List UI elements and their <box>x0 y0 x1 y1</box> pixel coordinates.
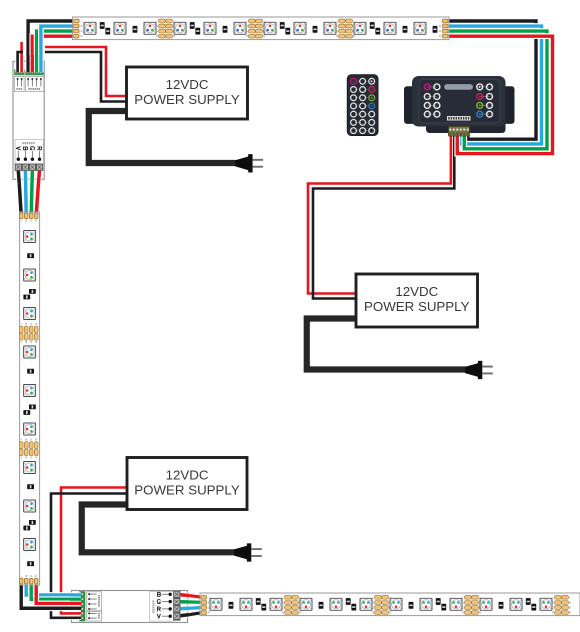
wire controller output B blue (controller to strip 1 right end) <box>447 26 542 144</box>
svg-text:+: + <box>372 595 374 599</box>
RGB LED, strip 3 (bottom), #7 <box>390 598 402 610</box>
wire top strip left G green (strip 1 to amplifier A1 input) <box>37 31 75 73</box>
amplifier A1 input pin diagram RGB box <box>25 77 43 92</box>
AC cable of power supply 3 <box>82 505 235 553</box>
wire end blue B into A2 RGB terminal <box>70 592 81 597</box>
amplifier A2 output pin V <box>157 614 172 618</box>
RGB LED, strip 3 (bottom), #3 <box>270 598 282 610</box>
wire strip 2 bottom + black (to amplifier A2 input) <box>21 582 82 608</box>
solder pads, strip 1 (top) <box>156 19 176 38</box>
amplifier A2 input terminal block 12V (green, 2-pole) <box>80 611 85 621</box>
svg-text:+: + <box>81 19 83 23</box>
resistor, strip 1 (top) <box>313 26 318 33</box>
RGB LED, strip 3 (bottom), #6 <box>360 598 372 610</box>
amplifier A2 body (RGB amplifier, bottom) <box>72 591 188 623</box>
RGB LED, strip 2 (left vertical), #4 <box>24 346 36 358</box>
resistor, strip 2 (left vertical) <box>27 253 34 258</box>
connection pads, strip 2 bottom end <box>19 574 38 584</box>
wire controller GND black (controller to power supply 2) <box>313 133 454 299</box>
resistor pair, strip 1 (top) <box>280 22 290 34</box>
svg-text:+: + <box>20 322 22 326</box>
svg-text:B: B <box>25 340 27 344</box>
wire end black into A2 12V terminal <box>70 616 81 620</box>
svg-text:+: + <box>20 218 22 222</box>
RGB LED, strip 1 (top), #8 <box>294 22 306 34</box>
RGB LED, strip 3 (bottom), #2 <box>240 598 252 610</box>
svg-text:+: + <box>20 574 22 578</box>
wire strip 2 bottom B blue (to amplifier A2 input) <box>26 582 82 595</box>
LED strip 3 (bottom) <box>200 593 580 616</box>
wire amplifier A1 output G green (to strip 2 top) <box>31 168 32 215</box>
svg-text:B: B <box>25 438 27 442</box>
RGB LED, strip 2 (left vertical), #8 <box>24 500 36 512</box>
svg-text:+: + <box>336 19 338 23</box>
power supply 2 box 12VDC POWER SUPPLY <box>356 274 478 327</box>
controller terminal block <box>449 127 470 137</box>
remote button row 2 <box>354 89 372 91</box>
controller button row2 col4 <box>487 94 493 100</box>
svg-text:B: B <box>80 24 82 28</box>
amplifier A2 OUTPUT label <box>150 592 174 622</box>
connection pads, strip 2 top end <box>19 213 38 222</box>
RGB LED, strip 2 (left vertical), #3 <box>24 308 36 320</box>
RGB LED, strip 3 (bottom), #9 <box>450 598 462 610</box>
amplifier A1 output pin G <box>30 147 34 161</box>
solder pads, strip 3 (bottom) <box>282 595 302 614</box>
resistor pair, strip 3 (bottom) <box>346 598 356 610</box>
wire stubs amplifier A1 output (over body) <box>16 171 22 184</box>
AC cable of power supply 2 <box>307 319 466 370</box>
wire end black + into A2 RGB terminal <box>70 606 81 611</box>
wire top strip left R red (strip 1 to amplifier A1 input) <box>32 36 74 73</box>
wire end red R into A2 RGB terminal <box>70 601 81 606</box>
connection pads, strip 1 right end <box>439 19 448 38</box>
controller button row3 col1 <box>427 104 437 106</box>
RGB LED, strip 2 (left vertical), #2 <box>24 269 36 281</box>
RGB controller U1 display window <box>444 84 473 90</box>
resistor pair, strip 2 (left vertical) <box>23 289 35 299</box>
wire end red R into A1 RGB terminal <box>30 55 35 72</box>
wire end green G into A1 RGB terminal <box>34 55 39 72</box>
RGB LED, strip 1 (top), #4 <box>174 22 186 34</box>
controller button row3 col2 <box>434 102 440 108</box>
power supply 1 box 12VDC POWER SUPPLY <box>127 67 248 119</box>
RGB LED, strip 1 (top), #12 <box>414 22 426 34</box>
controller button row4 col2 <box>434 111 440 117</box>
RGB LED, strip 3 (bottom), #12 <box>540 598 552 610</box>
amplifier A1 output terminal block (gray) <box>15 164 43 171</box>
wire amplifier A2 output R red (to strip 3) <box>179 594 203 597</box>
amplifier A1 output pin B <box>23 147 27 161</box>
resistor, strip 1 (top) <box>433 26 438 33</box>
wire amplifier A2 output B blue (to strip 3) <box>179 608 203 609</box>
wire amplifier A2 output G green (to strip 3) <box>179 599 203 605</box>
resistor pair, strip 1 (top) <box>100 22 110 34</box>
power supply 3 box 12VDC POWER SUPPLY <box>127 458 247 510</box>
wire PSU1 GND black (power supply 1 to amplifier A1 12V input) <box>45 52 129 102</box>
solder pads, strip 1 (top) <box>246 19 266 38</box>
wire strip 2 bottom G green (to amplifier A2 input) <box>31 582 82 599</box>
svg-text:POWER SUPPLY: POWER SUPPLY <box>134 482 240 497</box>
amplifier A2 output pin B <box>158 592 172 596</box>
svg-text:B: B <box>156 24 158 28</box>
RGB LED, strip 3 (bottom), #11 <box>510 598 522 610</box>
wire amplifier A1 output B blue (to strip 2 top) <box>22 168 29 215</box>
RGB LED, strip 1 (top), #9 <box>324 22 336 34</box>
RGB LED, strip 1 (top), #2 <box>114 22 126 34</box>
svg-text:+: + <box>569 595 571 599</box>
svg-text:B: B <box>282 600 284 604</box>
controller button row4 col4 <box>487 111 493 117</box>
svg-text:B: B <box>462 600 464 604</box>
solder pads, strip 3 (bottom) <box>372 595 392 614</box>
resistor pair, strip 3 (bottom) <box>256 598 266 610</box>
RGB controller U1 mounting tabs <box>404 86 416 124</box>
resistor, strip 2 (left vertical) <box>27 369 34 374</box>
remote button row 7 <box>354 130 372 132</box>
resistor, strip 3 (bottom) <box>319 602 324 609</box>
wire amplifier A2 output V black (to strip 3) <box>179 613 203 617</box>
resistor pair, strip 1 (top) <box>370 22 380 34</box>
connection pads, strip 1 left end <box>74 19 84 38</box>
svg-text:B: B <box>25 574 27 578</box>
RGB LED, strip 1 (top), #5 <box>204 22 216 34</box>
amplifier A1 output pin V <box>16 147 20 161</box>
RGB LED, strip 3 (bottom), #1 <box>210 598 222 610</box>
svg-text:B: B <box>25 218 27 222</box>
wire controller output black + (controller to strip 1 right end) <box>447 21 536 139</box>
RGB LED, strip 1 (top), #1 <box>84 22 96 34</box>
controller button row1 col4 <box>487 84 493 90</box>
svg-text:B: B <box>336 24 338 28</box>
AC plug P3 <box>234 546 247 560</box>
wire controller +12V red (controller to power supply 2) <box>308 133 451 294</box>
svg-text:+: + <box>20 455 22 459</box>
RGB LED, strip 3 (bottom), #4 <box>300 598 312 610</box>
svg-text:+: + <box>20 340 22 344</box>
wire PSU1 +12V red (power supply 1 to amplifier A1 12V input) <box>45 47 129 96</box>
RGB controller U1 case bottom tier <box>426 118 506 133</box>
resistor, strip 1 (top) <box>403 26 408 33</box>
amplifier A1 OUTPUT label <box>15 140 43 171</box>
remote button row 4 <box>354 105 372 107</box>
AC plug P2 <box>465 363 478 377</box>
connection pads, strip 3 left end <box>201 595 211 614</box>
RGB LED, strip 1 (top), #3 <box>144 22 156 34</box>
controller label plate <box>447 116 471 120</box>
amplifier A1 input terminal block RGB (green, 4-pole) <box>26 70 44 75</box>
RGB LED, strip 2 (left vertical), #6 <box>24 423 36 435</box>
RGB LED, strip 1 (top), #7 <box>264 22 276 34</box>
controller button row3 col4 <box>487 102 493 108</box>
resistor, strip 2 (left vertical) <box>27 484 34 489</box>
resistor pair, strip 2 (left vertical) <box>23 520 35 530</box>
svg-text:POWER SUPPLY: POWER SUPPLY <box>134 92 240 107</box>
wire controller output R red (controller to strip 1 right end) <box>447 36 553 153</box>
controller button row2 col1 <box>427 96 437 98</box>
amplifier A1 output pin R <box>38 147 42 161</box>
svg-text:B: B <box>372 600 374 604</box>
svg-text:+: + <box>20 438 22 442</box>
wire end red into A1 12V terminal <box>19 55 23 72</box>
wire PSU3 +12V red (power supply 3 to amplifier A2 power input) <box>61 488 129 614</box>
RGB LED, strip 1 (top), #11 <box>384 22 396 34</box>
svg-text:+: + <box>208 595 210 599</box>
remote button row 5 <box>354 113 372 115</box>
RGB LED, strip 3 (bottom), #8 <box>420 598 432 610</box>
resistor, strip 3 (bottom) <box>409 602 414 609</box>
svg-text:+: + <box>156 19 158 23</box>
solder pads, strip 3 (bottom) <box>552 595 572 614</box>
svg-text:+: + <box>462 595 464 599</box>
amplifier A2 input pin diagram 12V box <box>87 612 102 621</box>
svg-text:B: B <box>569 600 571 604</box>
LED strip 2 (left vertical) <box>19 212 39 585</box>
svg-text:+: + <box>282 595 284 599</box>
svg-text:12VDC: 12VDC <box>166 467 209 482</box>
controller button row1 col1 <box>427 86 437 88</box>
resistor pair, strip 3 (bottom) <box>436 598 446 610</box>
remote button row 6 <box>354 121 372 123</box>
wire end black into A1 12V terminal <box>15 55 19 72</box>
wire PSU3 GND black (power supply 3 to amplifier A2 power input) <box>51 494 129 618</box>
wire amplifier A1 output V black (to strip 2 top) <box>18 168 21 215</box>
amplifier A1 input pin diagram 12V box <box>14 77 24 92</box>
wire stubs amplifier A2 output (over body) <box>176 594 190 595</box>
controller button row1 col3 <box>480 86 490 88</box>
controller button row4 col3 <box>480 113 490 115</box>
LED strip 1 (top) <box>73 17 450 40</box>
wire controller output G green (controller to strip 1 right end) <box>447 31 547 149</box>
RGB LED, strip 1 (top), #6 <box>234 22 246 34</box>
svg-text:12VDC: 12VDC <box>395 284 438 299</box>
svg-text:+: + <box>552 595 554 599</box>
controller button row2 col2 <box>434 94 440 100</box>
amplifier A2 output pin G <box>157 600 172 604</box>
RGB LED, strip 3 (bottom), #10 <box>480 598 492 610</box>
amplifier A2 output terminal block (gray) <box>173 591 180 621</box>
svg-text:B: B <box>246 24 248 28</box>
RGB LED, strip 3 (bottom), #5 <box>330 598 342 610</box>
solder pads, strip 3 (bottom) <box>462 595 482 614</box>
wire amplifier A1 output R red (to strip 2 top) <box>36 168 39 215</box>
svg-text:12VDC: 12VDC <box>166 77 209 92</box>
resistor, strip 1 (top) <box>223 26 228 33</box>
svg-text:B: B <box>208 600 210 604</box>
amplifier A2 input terminal block RGB (green, 4-pole) <box>80 592 85 611</box>
svg-text:B: B <box>552 600 554 604</box>
solder pads, strip 2 (left vertical) <box>19 438 38 460</box>
svg-text:B: B <box>25 322 27 326</box>
solder pads, strip 2 (left vertical) <box>19 322 38 344</box>
resistor, strip 2 (left vertical) <box>27 561 34 566</box>
resistor pair, strip 3 (bottom) <box>526 598 536 610</box>
svg-text:B: B <box>25 455 27 459</box>
wire end green G into A2 RGB terminal <box>70 597 81 602</box>
wire top strip left + black (strip 1 to amplifier A1 input) <box>28 21 74 73</box>
RGB LED, strip 2 (left vertical), #5 <box>24 385 36 397</box>
RGB LED, strip 2 (left vertical), #1 <box>24 231 36 243</box>
wire end red into A2 12V terminal <box>70 611 81 615</box>
resistor, strip 3 (bottom) <box>229 602 234 609</box>
amplifier A1 body (RGB amplifier, top left) <box>13 61 44 179</box>
resistor pair, strip 1 (top) <box>190 22 200 34</box>
RGB controller U1 front panel <box>419 80 500 124</box>
controller button row3 col3 <box>480 104 490 106</box>
wire strip 2 bottom R red (to amplifier A2 input) <box>36 582 82 603</box>
remote button row 1 <box>354 80 372 82</box>
wire end black + into A1 RGB terminal <box>26 55 31 72</box>
solder pads, strip 1 (top) <box>336 19 356 38</box>
RGB LED, strip 2 (left vertical), #7 <box>24 462 36 474</box>
svg-text:+: + <box>246 19 248 23</box>
resistor, strip 1 (top) <box>133 26 138 33</box>
RGB controller U1 body <box>412 76 506 127</box>
svg-text:POWER SUPPLY: POWER SUPPLY <box>364 299 470 314</box>
AC plug P1 <box>235 156 248 170</box>
IR remote control body <box>347 75 378 136</box>
controller button row1 col2 <box>434 84 440 90</box>
RGB LED, strip 2 (left vertical), #9 <box>24 539 36 551</box>
controller button row2 col3 <box>480 96 490 98</box>
wire top strip left B blue (strip 1 to amplifier A1 input) <box>41 26 75 73</box>
remote button row 3 <box>354 97 372 99</box>
amplifier A1 input terminal block 12V (green, 2-pole) <box>15 70 25 75</box>
RGB LED, strip 1 (top), #10 <box>354 22 366 34</box>
svg-text:+: + <box>439 19 441 23</box>
resistor, strip 3 (bottom) <box>499 602 504 609</box>
amplifier A2 output pin R <box>158 607 172 611</box>
resistor pair, strip 2 (left vertical) <box>23 405 35 415</box>
amplifier A2 input pin diagram RGB box <box>87 592 102 611</box>
AC cable of power supply 1 <box>89 111 236 163</box>
svg-text:B: B <box>439 24 441 28</box>
controller button row4 col1 <box>427 113 437 115</box>
wire end blue B into A1 RGB terminal <box>38 55 43 72</box>
